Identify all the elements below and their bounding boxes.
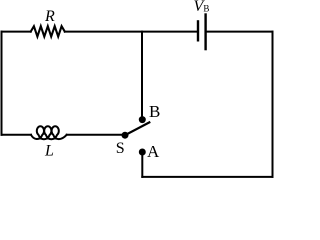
svg-text:L: L — [44, 143, 54, 160]
svg-text:A: A — [147, 142, 160, 161]
svg-text:S: S — [116, 140, 125, 157]
svg-text:B: B — [203, 4, 209, 14]
svg-text:B: B — [149, 102, 160, 121]
svg-text:R: R — [44, 8, 55, 25]
